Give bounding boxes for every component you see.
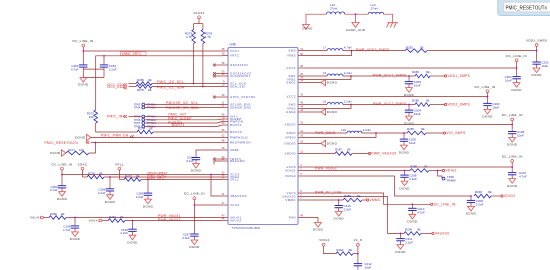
svg-text:DC_LINE_IN: DC_LINE_IN [475,85,496,89]
node junction C198 tap on VAUX1 [74,217,76,219]
node junction at DC_LINE_IN / VCC7 rail [82,50,84,52]
svg-text:VDIG2: VDIG2 [504,194,515,198]
pin BOOT1 (pin 50) of U46, left side [222,121,242,127]
node junction C185 tap on VPLL row [147,179,149,181]
power terminal DC_LINE_IN (VCC2) [475,85,496,93]
svg-text:PWR_VAUX33: PWR_VAUX33 [371,152,396,156]
net PMIC_RESETOUTn off-page connector [45,141,90,145]
svg-text:10uF: 10uF [414,84,421,88]
svg-text:DGND: DGND [127,240,138,244]
node junction C213 tap [412,203,414,205]
resistor R271 10K pull-down [66,148,89,155]
svg-text:R285: R285 [412,99,419,103]
svg-text:4.7uH: 4.7uH [344,46,352,50]
svg-text:VDDIO: VDDIO [285,123,297,127]
node junction VDDIO / C199 [511,124,513,126]
pin VRTC (pin 29) of U46, left side [222,52,240,58]
wire VDD3_SMPS down to rail junction [536,46,538,50]
svg-text:VAUX2: VAUX2 [230,219,242,223]
node junction C204 tap [408,104,410,106]
wire PAD pin 49 to ground [303,218,318,223]
svg-text:AGND_AUD: AGND_AUD [346,28,366,32]
resistor R288 0E [410,165,429,173]
node junction R278/SDA [202,86,204,88]
wire DC_LINE_IN down to VDDIO junction [511,121,513,125]
pin VPLL (pin 34) of U46, left side [222,176,239,182]
ground DGND below C204 [404,114,415,125]
svg-text:U46: U46 [230,43,236,47]
svg-text:L5: L5 [323,71,327,75]
ground DGND below C185 [143,197,154,208]
wire VCC2 pin 41 to DC_LINE_IN [303,96,488,98]
test point TP28 TP/MM [438,171,456,183]
svg-text:0E: 0E [424,165,428,169]
svg-text:2.2uF: 2.2uF [182,236,190,240]
svg-text:0E: 0E [349,248,353,252]
svg-text:DGND: DGND [511,88,522,92]
svg-text:VDIG1: VDIG1 [445,169,456,173]
pin SDASR_EN2 (pin 51) of U46, left side [222,104,252,110]
op-amp U46 TPS65916 PMIC body [228,48,298,225]
wire SW2 pin 45 to L6 [303,104,327,106]
power terminal VAUX2 (top) [193,11,204,19]
node junction VCC6 tap [194,204,196,206]
pin PWRON (pin 12) of U46, left side [222,118,244,124]
node junction C198b tap [403,132,405,134]
svg-text:DGND: DGND [313,228,324,232]
wire TP67 to pin 12 [145,122,217,124]
svg-text:OSC32KIN: OSC32KIN [230,63,248,67]
svg-text:PWRHOLD: PWRHOLD [230,136,248,140]
wire R286 to VIO_SMPS connector [426,132,443,134]
svg-text:0.1uF: 0.1uF [186,159,194,163]
wire DC_LINE_IN down to VCC3 row [61,170,63,175]
pin VREF (pin 18) of U46, left side [222,146,240,152]
test point TP63 TP/MM [134,103,156,107]
resistor R272 10K pull-up from VRTC [87,110,98,123]
node junction VCC5 / C207 [511,166,513,168]
svg-text:DGND: DGND [531,73,542,77]
pin SCL_SCK (pin 9) of U46, left side [222,80,246,86]
svg-text:PAD: PAD [289,216,296,220]
svg-text:DGND: DGND [75,136,86,140]
svg-text:VDD1_SMPS: VDD1_SMPS [448,74,471,78]
svg-text:DGND: DGND [327,81,338,85]
power terminal VDIG1 (bottom) [319,238,330,246]
svg-text:GND1: GND1 [286,81,296,85]
wire DC_LINE_IN down to VCC1 junction [516,62,518,68]
pin VFB1 (pin 23) of U46, right side [287,76,304,82]
wire R279 down to SCL net [193,44,195,84]
svg-text:DGND: DGND [482,115,493,119]
pin PWRHOLD (pin 52) of U46, left side [222,134,248,140]
inductor L10 2.2uH on SWIO [341,128,371,133]
svg-text:27nH: 27nH [371,7,378,11]
wire TP66 to pin 5 [145,119,217,121]
svg-text:VAUX2: VAUX2 [193,11,204,15]
ground DGND below C202 [531,66,542,77]
svg-text:PWR_VDD3_SMPS: PWR_VDD3_SMPS [356,48,390,52]
svg-text:DGND: DGND [395,250,406,254]
svg-text:2.2uF: 2.2uF [405,241,413,245]
node junction C186 tap on VDAC row [109,176,111,178]
capacitor C201 10uF on VCC1 [505,68,521,83]
wire junction down to R271 [89,143,96,154]
wire R278 down to SDA net [202,44,204,87]
ground DGND below C190 [191,162,202,173]
pin VDIG2 (pin 6) of U46, right side [285,172,303,178]
net label PMIC_PWR_EN [101,134,134,138]
svg-text:R280: R280 [50,212,57,216]
capacitor C213 4.7uF [408,204,425,214]
net I2C1_SCL off-page connector [107,83,127,87]
wire PMIC_RESETOUTn to pin 48 [91,142,222,144]
node junction AGND_AUD tap [355,13,357,15]
pin OSC32KOUT (pin 33) of U46, left side [213,70,252,76]
svg-text:R293: R293 [475,190,482,194]
power terminal VAUX1 [30,216,43,220]
wire DC_LINE_IN down to VCC2 junction [487,93,489,97]
svg-text:DGND: DGND [189,245,200,249]
svg-text:VDAC: VDAC [78,162,88,166]
pin VFB2 (pin 44) of U46, right side [287,105,304,111]
svg-text:VDD3_SMPS: VDD3_SMPS [526,39,547,43]
wire VFB3 pin 30 feedback [303,51,352,56]
net VAUX33 off-page connector [432,232,449,236]
wire R290 to V1_8 junction [353,253,358,255]
wire VFBIO pin 16 feedback [303,133,376,138]
svg-text:SWIO: SWIO [286,131,296,135]
svg-text:DGND: DGND [50,151,61,155]
wire R282 to VDD3_SMPS terminal [427,50,537,52]
pin SWIO (pin 14) of U46, right side [286,129,303,135]
svg-text:TPS659162RHBW: TPS659162RHBW [232,226,261,230]
ground DGND at GNDIO pin 15 [303,140,338,146]
wire VCC4 pin 8 to DC_LINE_IN connector [303,193,431,204]
svg-text:10uF: 10uF [364,266,371,270]
svg-text:VDIG1: VDIG1 [319,238,330,242]
svg-text:R288: R288 [410,165,417,169]
net VDD2_SMPS off-page connector [445,103,471,107]
node junction VFB1 feedback tap [350,75,352,77]
svg-text:2.2uH: 2.2uH [344,100,352,104]
pin VCC7 (pin 28) of U46, left side [222,47,240,53]
svg-text:R289: R289 [344,194,351,198]
ground DGND below C208 [399,179,410,190]
svg-text:DC_LINE_IN: DC_LINE_IN [73,39,94,43]
svg-text:10uF: 10uF [414,112,421,116]
svg-text:0E: 0E [426,99,430,103]
svg-text:VAUX33: VAUX33 [435,232,449,236]
pin VDIG1 (pin 2) of U46, right side [285,167,303,173]
svg-text:VMMC: VMMC [285,198,296,202]
wire TP63 to pin 11 [145,104,222,106]
wire VDIG1 terminal to R290 [324,246,336,253]
net VMMC off-page connector [366,198,381,202]
svg-text:10K: 10K [79,148,84,152]
svg-text:10uF: 10uF [505,79,512,83]
ground DGND below C200 [482,108,493,119]
pin VAUX33 (pin 3) of U46, right side [282,193,303,199]
capacitor C195 2.2uF on VAUX2 [120,221,136,236]
pin VDAC (pin 50) of U46, left side [222,173,240,179]
wire I2C1_SCL to R283 [129,83,137,85]
svg-text:0E: 0E [120,215,124,219]
test point TP66 TP/MM [134,118,156,122]
node junction RESETOUTn / R271 [95,142,97,144]
svg-text:VAUX2: VAUX2 [89,219,100,223]
ground DGND below C213 [407,213,418,224]
svg-text:4.7uF: 4.7uF [50,188,58,192]
net PWR_VAUX33 off-page connector [368,152,396,156]
ground DGND at R271 [61,150,66,156]
wire VMMC pin 7 to R289 [303,199,343,201]
wire R281 to pin 44 [125,220,222,222]
wire DGND up to L12 [306,14,326,24]
node junction C195 tap on VAUX2 [132,220,134,222]
pin TESTV (pin 20) of U46, left side [213,155,242,161]
wire R274 to pin 46 [153,131,222,133]
wire R287 to PWR_VAUX33 connector [352,153,368,155]
pin VDDIO (pin 13) of U46, right side [285,121,304,127]
svg-text:R281: R281 [109,215,116,219]
svg-text:2.2uF: 2.2uF [409,177,417,181]
node junction C209 tap on VDIG2 [470,195,472,197]
wire PWRHOLD row to pin 52 [91,137,222,139]
svg-text:I2C1_SDA: I2C1_SDA [107,85,125,89]
svg-text:DGND: DGND [105,200,116,204]
chassis ground (earth) symbol [386,23,398,28]
svg-text:2.2uF: 2.2uF [120,231,128,235]
wire VAUX33 pin 3 to output row [303,197,404,234]
svg-text:VCC2: VCC2 [286,95,296,99]
wire VPLL down to VPLL row [118,170,120,180]
svg-text:PWR_VCC1_SMPS: PWR_VCC1_SMPS [373,74,407,78]
wire VDIG1 pin 2 to R288 [303,170,410,172]
ground DGND at GND1 pin 24 [303,79,338,85]
capacitor C210 2.2uF on VMMC [335,200,352,212]
power terminal V1_8 [354,238,362,246]
svg-text:0E: 0E [148,88,152,92]
svg-text:VFBIO: VFBIO [285,136,296,140]
svg-text:2.2uH: 2.2uH [344,71,352,75]
svg-text:GND2: GND2 [286,110,296,114]
svg-text:R274: R274 [138,127,145,131]
svg-text:2.2uF: 2.2uF [476,202,484,206]
pin VMMC (pin 7) of U46, right side [285,196,303,202]
wire VDAC terminal to R276 [83,176,88,178]
svg-text:SDA_SDI: SDA_SDI [230,85,246,89]
ground DGND below C210 [334,210,345,221]
capacitor C199 10uF on VDDIO [508,125,525,138]
wire VCC7 rail to pin 28 [83,50,222,52]
wire L6 to R285 [343,104,415,106]
wire DC_LINE_IN terminal down to junction [82,47,84,51]
svg-text:TP64: TP64 [134,106,141,110]
net DC_LINE_IN off-page connector [431,203,456,207]
svg-text:DGND: DGND [57,197,68,201]
svg-text:L7: L7 [323,46,327,50]
wire R294 to VAUX33 connector [421,232,432,234]
wire SWIO pin 14 to L10 [303,132,347,134]
ground DGND below C212 (clipped at page edge) [357,268,359,270]
inductor L13 27nH [368,3,383,14]
resistor R282 0E [405,45,427,52]
wire R288 to VDIG1 connector [429,170,442,172]
svg-text:4.7uF: 4.7uF [519,175,527,179]
svg-text:27nH: 27nH [330,7,337,11]
pin SW1 (pin 25) of U46, right side [288,72,303,78]
resistor R283 0E on SCL [136,78,152,85]
svg-text:CLK32KOUT: CLK32KOUT [230,74,251,78]
wire VCC1 pin 26 to DC_LINE_IN [303,67,517,69]
ground DGND below C182 [80,78,87,83]
capacitor C190 0.1uF on VREF [186,155,200,163]
power terminal DC_LINE_IN (lower left) [184,192,205,200]
resistor R276 0E on VDAC row [87,172,104,179]
wire R277 to pin 34 [141,179,222,181]
svg-text:0E: 0E [347,148,351,152]
wire VDIG2 pin 6 to output row [303,176,471,196]
pin INTn (pin 45) of U46, left side [222,113,238,119]
svg-text:PMIC_PWR_EN: PMIC_PWR_EN [101,134,129,138]
node junction C211 tap on VAUX33 [400,233,402,235]
svg-text:2.2uF: 2.2uF [98,191,106,195]
net PMIC_INT off-page connector [107,115,127,119]
svg-text:VCC7: VCC7 [230,49,240,53]
node junction VFB2 feedback tap [350,104,352,106]
pin SDA_SDI (pin 10) of U46, left side [222,83,246,89]
ground DGND below C198 [70,230,81,241]
svg-text:R282: R282 [406,45,413,49]
wire VCC6 row to pin 47 [194,204,222,206]
svg-text:2.2uF: 2.2uF [136,195,144,199]
svg-text:PWR_VDIG1: PWR_VDIG1 [315,166,337,170]
resistor R274 0E on BOOT0 [137,127,153,134]
pin VFB3 (pin 30) of U46, right side [287,52,304,58]
ground DGND below C205 [399,143,410,154]
svg-text:R277: R277 [125,174,132,178]
svg-text:0E: 0E [421,127,425,131]
pin VAUX2 (pin 44) of U46, left side [222,217,242,223]
ground DGND below C211 [395,243,406,254]
svg-text:0E: 0E [357,194,361,198]
svg-text:VDD2_SMPS: VDD2_SMPS [448,103,471,107]
svg-text:2.2uH: 2.2uH [363,128,371,132]
wire VBACKUP tie down to pin 21 [211,175,222,197]
capacitor C200 10uF on VCC2 [483,97,500,110]
capacitor C212 10uF on V1_8 [354,254,372,270]
wire VAUX2 to pull-up split [198,19,200,24]
resistor R277 0E on VPLL row [124,174,141,181]
capacitor C198 4.7uF on VAUX1 [63,218,79,232]
svg-text:10uF: 10uF [517,134,524,138]
capacitor C205 10uF on SWIO output [400,133,417,145]
resistor R278 4.7K [201,30,212,44]
ground DGND below C195 [127,233,138,244]
capacitor C183 4.7uF on VCC3 rail [50,175,66,193]
test point TP64 TP/MM [134,106,156,110]
net VDD1_SMPS off-page connector [445,74,471,78]
capacitor C211 2.2uF on VAUX33 [396,233,413,244]
ground DGND at PAD [315,223,322,228]
power terminal DC_LINE_IN (VCC5) [502,154,523,162]
capacitor C182 4.7uF [71,51,88,71]
svg-text:DGND: DGND [327,142,338,146]
ground DGND below C209 [466,205,477,216]
node junction C210 tap on VMMC [338,199,340,201]
wire VCC5 pin 4 to DC_LINE_IN [303,166,512,168]
capacitor C208 2.2uF on VDIG1 [400,171,417,182]
svg-text:DC_LINE_IN: DC_LINE_IN [184,192,205,196]
resistor R279 4.7K [185,30,196,44]
svg-text:PMIC_RESETOUTn: PMIC_RESETOUTn [506,5,548,11]
svg-text:2.2uF: 2.2uF [109,67,117,71]
svg-text:R284: R284 [412,70,419,74]
node junction VFB3 feedback tap [351,50,353,52]
svg-text:4.7K: 4.7K [205,35,211,39]
svg-text:VCC6: VCC6 [230,203,240,207]
test point TP65 TP/MM [134,115,156,119]
resistor R287 0E [335,148,352,156]
pin VCC6 (pin 47) of U46, left side [222,201,240,207]
wire R289 to VMMC connector [362,199,366,201]
wire SDA to pin 10 [152,86,222,88]
net name overlay box PMIC_RESETOUTn [498,0,550,16]
svg-text:VAUX1: VAUX1 [30,216,41,220]
svg-text:VBACKUP: VBACKUP [230,194,247,198]
svg-text:VREF: VREF [230,148,240,152]
node junction at ground tie of C182/C184 [82,77,84,79]
wire SW3 pin 31 to L7 [303,50,327,52]
node junction VCC1 / C201 [516,67,518,69]
wire L12 to L13 [345,13,368,15]
pin CLK32KOUT (pin 36) of U46, left side [213,72,251,78]
node junction VFBIO feedback tap [375,132,377,134]
svg-text:VPLL: VPLL [115,162,124,166]
svg-text:0E: 0E [136,174,140,178]
svg-text:0E: 0E [417,228,421,232]
pin PAD (pin 49) of U46, right side [289,214,304,220]
capacitor C186 2.2uF on VDAC row [98,177,114,195]
power terminal VDAC [78,162,88,170]
ground DGND below C186 [105,193,116,204]
wire VRTC rail elbow to pin 29 [96,56,222,110]
pin SLEEP (pin 5) of U46, left side [222,115,242,121]
wire REFGND pin 17 jog [214,161,222,165]
net I2C1_SDA off-page connector [107,85,127,89]
svg-text:0E: 0E [488,190,492,194]
svg-text:DGND: DGND [191,169,202,173]
svg-text:PMIC_RESETOUTn: PMIC_RESETOUTn [45,141,79,145]
test point TP68 TP/MM on BOOT1 [134,125,156,129]
svg-text:VRTC: VRTC [230,54,240,58]
pin REFGND (pin 17) of U46, left side [222,157,245,163]
svg-text:TP/MM: TP/MM [446,179,456,183]
svg-text:PWR_VAUX2: PWR_VAUX2 [158,218,181,222]
ground DGND below C203 [404,86,415,97]
svg-text:R276: R276 [88,172,95,176]
svg-text:DGND: DGND [143,204,154,208]
pin VCC5 (pin 4) of U46, right side [286,163,303,169]
ground DGND at GND2 pin 43 [303,109,338,115]
resistor R284 0E [412,70,430,78]
svg-text:REGPWRON: REGPWRON [230,141,251,145]
svg-text:BOOT0: BOOT0 [230,130,242,134]
svg-text:GNDIO: GNDIO [284,142,296,146]
svg-text:VCC1: VCC1 [286,66,296,70]
capacitor C185 2.2uF on VPLL row [136,180,152,200]
